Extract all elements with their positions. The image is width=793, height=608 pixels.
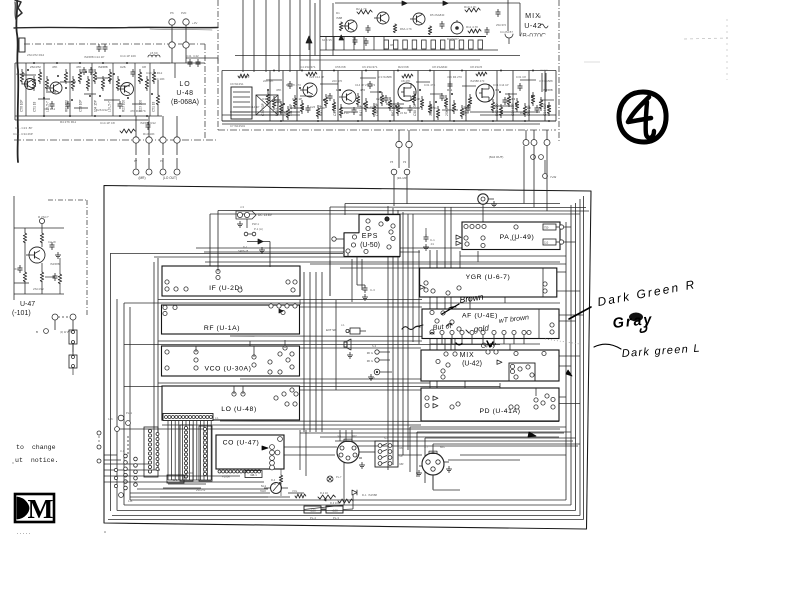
svg-text:C-3: C-3 bbox=[370, 288, 375, 292]
svg-text:(16-1/0): (16-1/0) bbox=[397, 176, 408, 180]
svg-text:R11: R11 bbox=[447, 88, 453, 92]
svg-text:PW-1: PW-1 bbox=[252, 222, 259, 226]
svg-text:C51 18: C51 18 bbox=[152, 101, 156, 112]
svg-text:0.01: 0.01 bbox=[431, 106, 437, 110]
transistor group MIX upper band bbox=[320, 1, 520, 44]
svg-text:3.3: 3.3 bbox=[262, 97, 267, 101]
svg-text:U-48: U-48 bbox=[176, 90, 193, 97]
svg-text:+100K: +100K bbox=[222, 475, 230, 479]
svg-text:+3V: +3V bbox=[192, 21, 197, 25]
svg-text:PD (U-41A): PD (U-41A) bbox=[479, 408, 520, 415]
wire MIX block dashed border bbox=[218, 0, 559, 143]
svg-text:R23 I98: R23 I98 bbox=[398, 65, 409, 69]
svg-text:R2 4.7K: R2 4.7K bbox=[356, 7, 367, 11]
svg-text:LO (U-48): LO (U-48) bbox=[221, 406, 257, 413]
wire U-47 dashed border bbox=[14, 196, 87, 317]
svg-text:2SC372: 2SC372 bbox=[33, 287, 44, 291]
svg-text:AW: AW bbox=[478, 188, 483, 192]
wire LO block dashed border bbox=[14, 44, 218, 140]
svg-text:IS1588: IS1588 bbox=[543, 88, 553, 92]
resistor pots and lamp PL-7 bbox=[271, 469, 377, 505]
svg-text:UP: UP bbox=[400, 455, 404, 458]
svg-text:R-4: R-4 bbox=[271, 478, 276, 482]
node MIC connector J-7 bbox=[416, 445, 452, 476]
svg-text:D-1: D-1 bbox=[243, 245, 248, 249]
svg-text:RF G: RF G bbox=[367, 359, 373, 363]
node RF pins bbox=[163, 304, 297, 316]
node LO block pins bbox=[232, 386, 298, 406]
svg-text:C58 10P: C58 10P bbox=[20, 100, 24, 112]
wire main box left bus bbox=[111, 253, 159, 511]
svg-text:R 2SC?: R 2SC? bbox=[38, 215, 49, 219]
svg-text:R41 1P: R41 1P bbox=[359, 104, 363, 116]
svg-text:47K: 47K bbox=[276, 88, 281, 92]
resistor network LO block bbox=[20, 62, 155, 117]
node handwritten gray arrow below AF bbox=[456, 341, 497, 350]
svg-text:C8: C8 bbox=[142, 65, 146, 69]
svg-text:47K R4 27K: 47K R4 27K bbox=[447, 75, 462, 79]
node MIX main band labels bbox=[300, 65, 483, 69]
transistor Q1 bbox=[22, 79, 36, 90]
svg-text:R62 220: R62 220 bbox=[495, 103, 499, 116]
svg-text:S-3: S-3 bbox=[372, 344, 377, 348]
svg-text:104 15P: 104 15P bbox=[289, 103, 293, 116]
svg-text:IS1588 470: IS1588 470 bbox=[470, 79, 485, 83]
svg-text:S-4: S-4 bbox=[384, 436, 389, 440]
svg-text:MIC: MIC bbox=[352, 434, 357, 438]
svg-text:R-2 1K: R-2 1K bbox=[320, 491, 328, 495]
switch S-3 RF gain bbox=[367, 344, 392, 380]
svg-text:M: M bbox=[28, 493, 54, 524]
node EPS pins bbox=[332, 217, 395, 257]
node VCO pins bbox=[165, 340, 294, 374]
svg-text:2SC372: 2SC372 bbox=[392, 106, 403, 110]
svg-text:AF (U-4E): AF (U-4E) bbox=[462, 313, 498, 320]
svg-text:(U-50): (U-50) bbox=[360, 242, 380, 249]
svg-text:C6 2SC371: C6 2SC371 bbox=[362, 65, 378, 69]
svg-text:IS1588: IS1588 bbox=[98, 65, 108, 69]
svg-text:RF (U-1A): RF (U-1A) bbox=[204, 325, 240, 332]
IC block IF(U-2D) bbox=[162, 266, 300, 296]
node lamp boxes PL-4 PL-3 bbox=[304, 506, 343, 520]
svg-text:C2 W: C2 W bbox=[48, 240, 56, 244]
svg-text:U-47: U-47 bbox=[20, 301, 35, 308]
svg-text:(B-068A): (B-068A) bbox=[171, 99, 199, 106]
node handwritten squiggle bbox=[402, 325, 423, 330]
IC block AF(U-4E) bbox=[422, 309, 559, 339]
svg-text:2SC372 R12: 2SC372 R12 bbox=[27, 53, 45, 57]
node stray dot bbox=[12, 462, 105, 533]
svg-text:IS88: IS88 bbox=[336, 16, 343, 20]
wire MIX left verticals bbox=[243, 0, 320, 72]
node AF pins bbox=[430, 309, 554, 344]
svg-text:C41 C42: C41 C42 bbox=[186, 54, 199, 58]
svg-text:L50 1W: L50 1W bbox=[540, 70, 548, 72]
node MIX pad row bbox=[235, 3, 520, 60]
svg-text:YGR (U-6-7): YGR (U-6-7) bbox=[466, 274, 511, 281]
transistor U-47 amplifier bbox=[12, 215, 64, 317]
svg-text:(M-0 OUT): (M-0 OUT) bbox=[489, 155, 503, 159]
svg-text:EXT SP: EXT SP bbox=[326, 328, 336, 332]
svg-text:R6A 4.7K: R6A 4.7K bbox=[400, 27, 412, 31]
svg-text:146: 146 bbox=[128, 499, 133, 503]
node IF pins bbox=[165, 266, 297, 292]
transistor Q2 bbox=[47, 82, 62, 94]
svg-text:C4 2SC57: C4 2SC57 bbox=[500, 30, 513, 34]
svg-text:W-1: W-1 bbox=[172, 478, 178, 482]
svg-text:(-101): (-101) bbox=[12, 310, 31, 317]
svg-text:J-5: J-5 bbox=[337, 434, 341, 438]
svg-text:P-1 (A): P-1 (A) bbox=[254, 227, 263, 231]
node DC input connector J-3 bbox=[236, 205, 273, 267]
node PD pins bbox=[425, 388, 555, 409]
svg-text:750: 750 bbox=[544, 226, 549, 230]
svg-text:R4 27K R11: R4 27K R11 bbox=[60, 120, 76, 124]
svg-text:0.01 47K: 0.01 47K bbox=[424, 83, 435, 87]
IC block PA(U-49) bbox=[462, 222, 560, 250]
node handwritten gray bbox=[612, 312, 655, 332]
wire drops from MIX block bbox=[394, 146, 547, 211]
node LO connector strip bbox=[163, 414, 219, 421]
node handwritten notes on AF bbox=[430, 314, 529, 334]
svg-text:10K: 10K bbox=[415, 97, 420, 101]
svg-text:2SK19: 2SK19 bbox=[445, 106, 449, 116]
svg-text:R62 220: R62 220 bbox=[65, 100, 69, 112]
svg-text:C14 1P 10K: C14 1P 10K bbox=[120, 54, 136, 58]
resistor network MIX main band bbox=[266, 70, 554, 123]
svg-text:+100: +100 bbox=[331, 508, 338, 512]
IC block RF(U-1A) bbox=[162, 305, 300, 334]
svg-text:C58 10P: C58 10P bbox=[413, 102, 417, 116]
svg-text:C34 63P: C34 63P bbox=[543, 102, 547, 116]
node MIX bottom connector left bbox=[390, 130, 412, 180]
wire main box outline bbox=[104, 186, 591, 530]
svg-text:C26 R12: C26 R12 bbox=[96, 108, 108, 112]
node MIC connector J-5 bbox=[337, 434, 365, 468]
svg-text:C14 1P: C14 1P bbox=[340, 111, 349, 115]
svg-text:GB-1: GB-1 bbox=[250, 473, 257, 477]
svg-text:IS1588: IS1588 bbox=[50, 262, 60, 266]
svg-text:0.01 C8: 0.01 C8 bbox=[516, 75, 526, 79]
svg-text:C26: C26 bbox=[120, 65, 126, 69]
node antenna jack bbox=[478, 188, 497, 222]
node MIX bottom connector right bbox=[489, 130, 556, 179]
svg-text:.01: .01 bbox=[430, 242, 434, 246]
wire LO block buses bbox=[15, 63, 170, 120]
svg-text:SR08-28: SR08-28 bbox=[238, 249, 249, 253]
svg-text:C51 18: C51 18 bbox=[33, 101, 37, 112]
svg-text:6 +B: 6 +B bbox=[510, 238, 516, 242]
svg-text:C7 W13S01: C7 W13S01 bbox=[230, 124, 246, 128]
svg-text:C7: C7 bbox=[352, 35, 356, 39]
svg-text:C26: C26 bbox=[376, 97, 382, 101]
svg-text:C8: C8 bbox=[527, 106, 531, 110]
svg-text:C13 - C34 26P: C13 - C34 26P bbox=[13, 132, 33, 136]
svg-text:C14 1P: C14 1P bbox=[250, 105, 259, 109]
svg-text:P0: P0 bbox=[160, 159, 164, 163]
svg-text:PL-4: PL-4 bbox=[310, 516, 316, 520]
svg-text:gold: gold bbox=[473, 323, 490, 334]
IC block VCO(U-30A) bbox=[162, 346, 300, 376]
svg-text:0.01 C14 1P: 0.01 C14 1P bbox=[493, 83, 509, 87]
node CO pins bbox=[270, 437, 283, 470]
svg-text:C56 I68: C56 I68 bbox=[335, 65, 346, 69]
svg-text:2SC372: 2SC372 bbox=[196, 488, 206, 492]
svg-text:C58 10P: C58 10P bbox=[375, 102, 379, 116]
wire bottom right nested rails bbox=[410, 427, 580, 489]
node handwritten circled 4 bbox=[619, 92, 666, 142]
IC block LO(U-48) bbox=[162, 386, 300, 420]
svg-text:L3 L5-7: L3 L5-7 bbox=[108, 101, 112, 112]
svg-text:PL-7: PL-7 bbox=[336, 475, 342, 479]
svg-text:C14 1P R12: C14 1P R12 bbox=[146, 71, 163, 75]
svg-text:D1: D1 bbox=[336, 11, 340, 15]
svg-text:L3 L5-7: L3 L5-7 bbox=[275, 105, 279, 116]
svg-text:IS1588 C14 1P: IS1588 C14 1P bbox=[84, 55, 104, 59]
svg-text:(MR): (MR) bbox=[138, 176, 145, 180]
svg-text:VOL: VOL bbox=[292, 489, 298, 493]
node MIX U-42 label bbox=[508, 0, 556, 43]
svg-text:2SC372: 2SC372 bbox=[496, 23, 507, 27]
capacitor network LO block bbox=[50, 44, 136, 109]
svg-text:PA (U-49): PA (U-49) bbox=[500, 234, 535, 241]
node MIX block pins bbox=[436, 350, 546, 381]
svg-text:D5 2SA840: D5 2SA840 bbox=[430, 13, 445, 17]
wire main box bottom bus bbox=[108, 500, 584, 520]
svg-text:PL-3: PL-3 bbox=[333, 516, 339, 520]
node LO output connector pins bbox=[133, 116, 180, 180]
svg-text:C8 47K: C8 47K bbox=[401, 79, 410, 83]
svg-text:J-7: J-7 bbox=[424, 445, 428, 449]
svg-text:RF G: RF G bbox=[367, 351, 373, 355]
svg-text:J-3: J-3 bbox=[240, 205, 244, 209]
svg-text:DN: DN bbox=[400, 447, 404, 450]
svg-text:J-1: J-1 bbox=[215, 416, 219, 420]
svg-text:P9: P9 bbox=[403, 160, 407, 164]
svg-text:R23 100: R23 100 bbox=[122, 100, 126, 112]
svg-text:MIX: MIX bbox=[460, 352, 475, 359]
svg-text:R17 4.7K: R17 4.7K bbox=[464, 5, 477, 9]
svg-text:B: B bbox=[36, 330, 38, 334]
node LO +B input pins bbox=[169, 11, 218, 63]
svg-text:P20: P20 bbox=[181, 11, 187, 15]
svg-text:VCO (U-30A): VCO (U-30A) bbox=[204, 366, 251, 373]
svg-text:3.3: 3.3 bbox=[495, 88, 500, 92]
node YGR pins bbox=[420, 268, 547, 297]
svg-text:P7: P7 bbox=[134, 159, 138, 163]
node CO connector row bbox=[218, 470, 262, 479]
IC block PD(U-41A) bbox=[421, 388, 559, 421]
node left edge connectors bbox=[97, 411, 137, 503]
node PA pins bbox=[456, 224, 564, 248]
svg-text:220 47K: 220 47K bbox=[263, 79, 274, 83]
svg-text:C14 1P 2SC372: C14 1P 2SC372 bbox=[355, 83, 376, 87]
svg-text:SWR: SWR bbox=[260, 489, 266, 493]
svg-text:MIC: MIC bbox=[440, 445, 445, 449]
svg-text:C14 1P: C14 1P bbox=[292, 97, 302, 101]
svg-text:CO (U-47): CO (U-47) bbox=[223, 440, 260, 447]
svg-text:2SC372: 2SC372 bbox=[16, 72, 27, 76]
svg-text:L3 L5-7: L3 L5-7 bbox=[46, 101, 50, 112]
svg-text:146: 146 bbox=[108, 417, 113, 421]
node LO U-48 (B-068A) label bbox=[171, 81, 199, 106]
svg-text:10K: 10K bbox=[320, 106, 325, 110]
wire leader to Dark Green R bbox=[569, 307, 591, 319]
svg-text:L5 60: L5 60 bbox=[150, 51, 158, 55]
svg-text:3.3 IS1588: 3.3 IS1588 bbox=[378, 75, 392, 79]
IC block MIX(U-42) bbox=[421, 350, 559, 381]
svg-text:LO: LO bbox=[179, 81, 190, 88]
node meter M-1 bbox=[260, 483, 288, 494]
svg-text:150: 150 bbox=[272, 483, 277, 486]
wire right column stubs bbox=[557, 227, 584, 404]
IC block EPS(U-50) bbox=[344, 215, 400, 257]
svg-text:M-1: M-1 bbox=[261, 484, 266, 488]
wire scan edge artifacts bbox=[14, 0, 728, 162]
svg-text:U-42: U-42 bbox=[524, 21, 542, 30]
wire main box right bus bbox=[566, 196, 584, 520]
node handwritten Dark green L bbox=[545, 339, 701, 360]
svg-text:L5 60: L5 60 bbox=[400, 111, 407, 115]
svg-text:C8 2SC5: C8 2SC5 bbox=[470, 65, 483, 69]
node text without notice bbox=[15, 457, 59, 464]
svg-text:D-1 IS1588: D-1 IS1588 bbox=[362, 493, 377, 497]
svg-text:C8 2SA840: C8 2SA840 bbox=[432, 65, 448, 69]
svg-text:J-1: J-1 bbox=[341, 323, 345, 327]
svg-text:to change: to change bbox=[16, 444, 56, 451]
wire faint dotted line bbox=[17, 533, 32, 535]
IC oscillator and transistor group MIX main band bbox=[222, 71, 556, 129]
node MIX clutter labels bbox=[222, 72, 556, 116]
svg-text:7+W: 7+W bbox=[550, 175, 556, 179]
wire bottom mesh bbox=[104, 370, 572, 510]
node ICOM logo fragment bbox=[15, 493, 54, 524]
wire center vertical bundle bbox=[300, 206, 510, 470]
svg-text:C51 18: C51 18 bbox=[333, 105, 337, 116]
node handwritten Dark Green R bbox=[596, 277, 697, 309]
svg-text:ut notice.: ut notice. bbox=[15, 457, 59, 464]
svg-text:470: 470 bbox=[360, 88, 365, 92]
svg-text:(LO OUT): (LO OUT) bbox=[163, 176, 177, 180]
IC block YGR(U-6-7) bbox=[420, 268, 557, 297]
svg-text:(3) W W?: (3) W W? bbox=[60, 330, 72, 334]
svg-text:64 K 95: 64 K 95 bbox=[322, 38, 332, 42]
switch S-4 bbox=[375, 436, 404, 467]
node stray parts right of MIX bbox=[539, 15, 548, 92]
svg-text:P5: P5 bbox=[390, 160, 394, 164]
node W-1 box bbox=[167, 471, 206, 492]
node text to change bbox=[16, 444, 56, 451]
svg-text:U-1: U-1 bbox=[120, 449, 125, 453]
svg-text:PL-1: PL-1 bbox=[126, 411, 132, 415]
svg-text:104 15P: 104 15P bbox=[94, 100, 98, 112]
wire digital bundle below LO bbox=[163, 421, 211, 488]
wire main box cross wires bbox=[104, 248, 578, 497]
svg-text:MR: MR bbox=[400, 463, 404, 466]
svg-text:R23 100: R23 100 bbox=[139, 100, 143, 112]
svg-text:110: 110 bbox=[544, 241, 549, 245]
inductor L5 and caps bbox=[120, 51, 205, 136]
svg-text:3.3: 3.3 bbox=[511, 97, 516, 101]
svg-text:2SC372: 2SC372 bbox=[30, 65, 41, 69]
capacitor C-3 below EPS bbox=[357, 228, 435, 300]
svg-text:C1 - C13 8P: C1 - C13 8P bbox=[15, 126, 32, 130]
svg-text:C14 1P C8: C14 1P C8 bbox=[100, 121, 115, 125]
node digital connector columns bbox=[144, 425, 212, 481]
svg-text:(U-42): (U-42) bbox=[462, 361, 482, 368]
svg-text:R14 10K: R14 10K bbox=[153, 77, 165, 81]
svg-text:EPS: EPS bbox=[362, 233, 378, 240]
svg-text:C26 C14 1P: C26 C14 1P bbox=[309, 75, 324, 79]
IC block CO(U-47) bbox=[216, 435, 284, 469]
svg-text:47K: 47K bbox=[76, 65, 81, 69]
node U-47 output connector bbox=[36, 314, 77, 375]
svg-text:DC 13.8V: DC 13.8V bbox=[258, 213, 273, 217]
svg-text:C34 63P: C34 63P bbox=[261, 102, 265, 116]
svg-text:47K: 47K bbox=[52, 65, 57, 69]
svg-text:R12: R12 bbox=[14, 267, 20, 271]
wire main box top bus bbox=[210, 204, 589, 297]
svg-text:C26: C26 bbox=[310, 105, 316, 109]
svg-text:0: 0 bbox=[539, 15, 541, 19]
svg-text:C58 10P: C58 10P bbox=[79, 100, 83, 112]
svg-text:P6: P6 bbox=[170, 11, 174, 15]
node EXT SP jack and speaker bbox=[326, 323, 366, 358]
svg-text:L5 60: L5 60 bbox=[186, 471, 193, 475]
svg-text:220 470: 220 470 bbox=[332, 79, 343, 83]
node handwritten Brown bbox=[442, 292, 484, 314]
svg-text:C4 2SC371: C4 2SC371 bbox=[300, 65, 316, 69]
node LO component labels bbox=[13, 53, 163, 136]
svg-text:C9 W13S1: C9 W13S1 bbox=[230, 82, 244, 86]
transistor Q3 bbox=[118, 83, 134, 96]
svg-text:C34 63P: C34 63P bbox=[511, 102, 515, 116]
svg-text:R11 4.7K: R11 4.7K bbox=[466, 25, 478, 29]
